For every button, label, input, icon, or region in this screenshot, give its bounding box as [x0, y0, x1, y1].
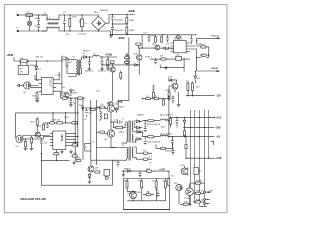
wire drive top — [83, 107, 107, 109]
svg-text:10u: 10u — [166, 44, 170, 46]
resistor R2 — [126, 15, 135, 25]
wire +300V feed — [106, 15, 136, 24]
wire -300V feed — [99, 31, 136, 35]
resistor R30 — [76, 158, 81, 162]
svg-text:1k: 1k — [186, 81, 189, 83]
svg-text:100n 1000/10: 100n 1000/10 — [147, 142, 161, 144]
wire -12v — [186, 93, 215, 96]
svg-text:R40 1k: R40 1k — [196, 199, 204, 201]
capacitor C1 — [34, 15, 40, 31]
wire q11 — [185, 166, 188, 176]
pins U3 right — [53, 80, 56, 91]
capacitor C2 — [34, 25, 40, 28]
transformer T2 secondary — [132, 147, 136, 157]
ground — [24, 148, 28, 150]
capacitor C20 — [172, 148, 175, 156]
transistor Q7 — [170, 81, 178, 89]
resistor R10 — [77, 97, 82, 99]
wire q9 — [90, 160, 92, 173]
node j55 — [142, 98, 143, 99]
ic U1 TL494 — [53, 131, 66, 150]
transistor Q14 — [110, 67, 115, 72]
svg-text:R20: R20 — [65, 117, 70, 119]
wire q10 — [127, 190, 136, 200]
resistor R59 — [50, 122, 55, 124]
box snubber — [85, 144, 91, 152]
svg-text:C15: C15 — [44, 143, 49, 145]
node j62 — [126, 64, 127, 65]
svg-text:+300B: +300B — [6, 55, 13, 57]
svg-text:C945: C945 — [136, 192, 142, 194]
resistor R29 — [136, 157, 152, 160]
node j57 — [155, 58, 156, 59]
terminal N — [17, 28, 19, 32]
node j36 — [65, 112, 66, 113]
resistor R8 — [107, 57, 114, 69]
ground — [30, 148, 34, 150]
svg-text:GND: GND — [216, 127, 221, 129]
diode D12 — [127, 170, 130, 172]
svg-text:4.7: 4.7 — [149, 163, 153, 165]
node j80 — [172, 148, 173, 149]
capacitor C19 — [171, 137, 174, 147]
node j79 — [208, 158, 209, 159]
svg-text:1N4007: 1N4007 — [30, 65, 38, 67]
capacitor CX1 — [79, 15, 88, 31]
node j40 — [82, 107, 83, 108]
wire pgood — [197, 38, 218, 44]
resistor R48 — [96, 106, 104, 108]
resistor R62 — [148, 120, 154, 122]
node j73 — [185, 136, 186, 137]
wire opto conn — [15, 134, 31, 139]
wire y48 bus — [140, 47, 174, 49]
node j19 — [46, 60, 47, 61]
svg-text:U6: U6 — [16, 146, 20, 148]
resistor R33 — [126, 179, 128, 192]
capacitor C25 — [172, 96, 175, 103]
resistor R38 — [168, 171, 170, 186]
node j26 — [162, 34, 163, 35]
svg-text:Q2: Q2 — [104, 139, 108, 141]
svg-text:1N5: 1N5 — [209, 191, 214, 193]
wire deadtime — [40, 137, 41, 154]
resistor R32 — [147, 170, 152, 172]
transistor Q13 — [133, 54, 142, 61]
resistor R52 — [161, 58, 167, 60]
transistor Q5 — [62, 92, 69, 98]
resistor R11 — [151, 35, 156, 42]
transistor Q9 — [88, 166, 99, 172]
transistor Q1 — [107, 102, 115, 112]
ground — [122, 171, 126, 177]
svg-text:1u: 1u — [44, 13, 47, 15]
svg-text:100n 1000/16: 100n 1000/16 — [147, 124, 161, 126]
svg-text:T1: T1 — [122, 118, 125, 120]
resistor R46 — [162, 99, 164, 106]
resistor R40 — [191, 182, 205, 184]
transistor Q2 — [104, 130, 115, 141]
svg-text:Др1 3300/16: Др1 3300/16 — [160, 114, 173, 116]
svg-text:T2: T2 — [143, 150, 146, 152]
resistor R7 — [66, 57, 73, 69]
svg-text:L4: L4 — [93, 54, 96, 56]
node j4 — [42, 30, 43, 31]
svg-text:N: N — [17, 28, 19, 30]
wire — [33, 14, 47, 16]
wire q2 emitter — [111, 137, 116, 147]
wire gnd out — [183, 126, 214, 128]
node j56 — [110, 121, 111, 122]
inductor L6 — [100, 108, 101, 121]
node j5 — [69, 14, 70, 15]
svg-text:FR107: FR107 — [83, 51, 90, 53]
capacitor C11 — [166, 35, 169, 42]
node j68 — [25, 138, 26, 139]
wire 5vsb rail — [87, 56, 117, 58]
pins U2 left — [171, 43, 174, 52]
wire mid to cap — [111, 121, 116, 123]
svg-text:+5V: +5V — [216, 137, 221, 139]
resistor R21 — [38, 123, 45, 130]
svg-text:R7: R7 — [69, 62, 73, 64]
diode D5 — [194, 72, 201, 84]
node j31 — [196, 57, 197, 58]
resistor R57 — [90, 108, 96, 110]
resistor R41 — [193, 192, 204, 194]
transformer T3 core — [78, 60, 79, 76]
resistor R34 — [141, 179, 143, 192]
capacitor C9 — [70, 98, 77, 104]
wire 5v channel — [142, 132, 160, 137]
terminal L — [17, 12, 19, 17]
node j54 — [172, 96, 173, 97]
wire mark — [211, 141, 214, 145]
node j37 — [65, 122, 66, 123]
wire vcc rail — [142, 34, 197, 36]
wire out bus F — [189, 110, 191, 206]
resistor R49 — [96, 131, 104, 133]
svg-text:D5: D5 — [62, 87, 66, 89]
choke L1 core — [48, 23, 59, 24]
transformer T3 secondary — [72, 57, 84, 74]
magamp row — [122, 170, 170, 172]
resistor R61 — [31, 136, 33, 149]
node j16 — [19, 60, 20, 61]
diode D3 — [70, 89, 78, 97]
resistor R39 — [194, 167, 203, 174]
capacitor C24 — [157, 191, 160, 197]
wire stage bottom — [61, 97, 86, 99]
node j60 — [139, 64, 140, 65]
svg-text:D2: D2 — [83, 53, 87, 55]
svg-text:200v/560: 200v/560 — [114, 30, 124, 32]
svg-text:R8 47k: R8 47k — [36, 57, 44, 59]
ground — [69, 105, 73, 107]
transformer T1 secondary — [132, 121, 136, 142]
resistor R28 — [136, 147, 152, 154]
diode D15 — [168, 77, 177, 83]
wire — [65, 30, 99, 32]
svg-text:Q11: Q11 — [180, 165, 185, 167]
ic U2 WT7510 — [174, 38, 187, 52]
resistor R16 — [187, 82, 189, 93]
lamp HL1 — [27, 16, 31, 31]
node j61 — [107, 64, 108, 65]
diode D1 — [35, 61, 42, 76]
wire out bus J — [207, 110, 209, 158]
node j75 — [199, 117, 200, 118]
node j53 — [168, 96, 169, 97]
capacitor C10 — [148, 35, 151, 42]
node j77 — [199, 136, 200, 137]
wire mid rail — [112, 23, 127, 25]
svg-text:+300B: +300B — [116, 101, 123, 103]
wire bus D — [90, 100, 92, 160]
transistor Q10 — [127, 192, 136, 199]
node j64 — [75, 133, 76, 134]
svg-text:+5VSB: +5VSB — [105, 54, 113, 56]
wire gnd frame left — [41, 155, 112, 185]
wire top feedback — [15, 112, 79, 114]
node j17 — [28, 60, 29, 61]
resistor R25 — [113, 122, 125, 129]
node j48 — [132, 191, 133, 192]
resistor R55 — [124, 57, 129, 59]
svg-text:LD7552: LD7552 — [50, 78, 53, 87]
choke L1 winding top — [43, 15, 65, 20]
svg-text:MUR: MUR — [72, 93, 77, 95]
svg-text:+300B: +300B — [128, 10, 135, 13]
svg-text:0.1/275v: 0.1/275v — [78, 34, 87, 36]
svg-text:Q9: Q9 — [95, 168, 99, 170]
node j47 — [145, 170, 146, 171]
resistor R20 — [65, 117, 78, 124]
svg-text:T2: T2 — [122, 145, 125, 147]
ground — [88, 69, 92, 71]
node j21 — [89, 56, 90, 57]
wire reg bottom — [123, 209, 169, 211]
wire 12v sense — [178, 92, 180, 105]
wire sb logic rail — [102, 64, 139, 66]
wire out bus I — [193, 110, 195, 203]
node j34 — [192, 95, 193, 96]
fuse F1 — [26, 11, 33, 16]
ground — [164, 66, 168, 70]
svg-text:13007: 13007 — [118, 132, 125, 134]
svg-text:1n: 1n — [84, 119, 87, 121]
optocoupler U4 — [23, 82, 31, 94]
svg-text:+3.3B: +3.3B — [215, 158, 222, 160]
svg-text:L: L — [17, 12, 19, 14]
node j76 — [190, 127, 191, 128]
svg-text:300mkГн: 300mkГн — [165, 151, 175, 153]
svg-text:PC817: PC817 — [145, 57, 152, 59]
wire psout rail — [190, 46, 209, 57]
node j38 — [41, 153, 42, 154]
node j59 — [139, 47, 140, 48]
wire q7 — [169, 86, 175, 93]
resistor R12 — [161, 35, 163, 42]
resistor R14 — [201, 44, 207, 48]
wire pins — [206, 192, 211, 203]
wire reg top — [123, 178, 169, 180]
resistor R6 — [33, 91, 39, 100]
capacitor C28 — [126, 59, 129, 61]
svg-text:1u: 1u — [92, 142, 95, 144]
resistor R5 box — [18, 61, 28, 75]
wire main rail — [115, 100, 119, 109]
capacitor C15 — [40, 140, 48, 146]
wire r65 drop — [156, 143, 173, 149]
svg-text:BD1: BD1 — [94, 12, 99, 14]
svg-text:R1: R1 — [66, 34, 70, 36]
node j45 — [172, 136, 173, 137]
ground — [60, 150, 64, 154]
svg-text:100: 100 — [96, 91, 100, 93]
resistor R56 — [124, 61, 129, 65]
node j67 — [77, 142, 78, 143]
node j71 — [64, 14, 65, 15]
optocoupler U6 — [16, 135, 24, 147]
svg-text:200v/560: 200v/560 — [114, 20, 124, 22]
resistor R47 — [152, 91, 154, 98]
box R53 — [176, 56, 182, 60]
node j2 — [42, 14, 43, 15]
wire bus C — [82, 98, 84, 160]
svg-text:SB360: SB360 — [137, 114, 144, 116]
svg-text:R6: R6 — [33, 96, 37, 98]
node j42 — [176, 117, 177, 118]
resistor R15 — [201, 54, 206, 56]
svg-text:D5: D5 — [197, 78, 201, 80]
wire mid bottom — [127, 191, 166, 200]
svg-text:R19 4k7: R19 4k7 — [52, 120, 61, 122]
svg-text:C4: C4 — [113, 161, 117, 163]
inductor L5 — [160, 135, 168, 136]
node j13 — [126, 34, 127, 35]
svg-text:2k2: 2k2 — [196, 87, 200, 89]
node j69 — [145, 120, 146, 121]
node j29 — [196, 40, 197, 41]
svg-text:D1: D1 — [38, 69, 42, 71]
node j41 — [90, 107, 91, 108]
node j58 — [183, 58, 184, 59]
resistor R54 — [136, 43, 141, 48]
pins U3 left — [39, 80, 42, 91]
transformer T1 core — [129, 121, 130, 143]
wire pson — [190, 49, 217, 71]
node j30 — [208, 55, 209, 56]
wire 5v sense — [168, 96, 170, 136]
node j7 — [81, 14, 82, 15]
transistor Q11 — [180, 165, 188, 175]
transistor Q12 — [108, 102, 119, 107]
svg-text:SB360: SB360 — [137, 132, 144, 134]
svg-text:WT7510: WT7510 — [174, 38, 183, 40]
power arrow — [125, 53, 129, 57]
wire out bus H — [204, 110, 206, 206]
transformer T1 primary — [122, 118, 128, 143]
svg-text:TL431: TL431 — [184, 198, 191, 200]
diode D7 — [135, 123, 143, 130]
transformer T3 primary — [62, 60, 77, 77]
ground — [109, 35, 113, 38]
resistor R44 — [146, 98, 151, 100]
transistor Q6 — [154, 44, 160, 50]
resistor R13 — [176, 36, 181, 41]
ground — [177, 105, 181, 107]
resistor R35 — [155, 179, 157, 192]
capacitor C32 — [144, 137, 147, 145]
node j78 — [204, 127, 205, 128]
node j70 — [145, 136, 146, 137]
ground — [106, 69, 110, 71]
resistor R50 — [72, 144, 77, 146]
node j14 — [112, 23, 113, 24]
node j24 — [70, 97, 71, 98]
misc value labels — [30, 12, 214, 204]
node j52 — [168, 136, 169, 137]
svg-text:4.7: 4.7 — [149, 157, 153, 159]
resistor R65 — [156, 147, 173, 149]
node j23 — [107, 56, 108, 57]
wire to switch stage — [135, 35, 142, 49]
diode D4 — [163, 47, 169, 50]
diode D13 — [115, 108, 117, 113]
wire left drop — [14, 113, 16, 134]
capacitor C12 — [190, 35, 193, 44]
resistor R23 — [54, 150, 59, 161]
resistor R4 — [20, 58, 28, 62]
svg-text:C3: C3 — [63, 12, 67, 14]
resistor R58 — [104, 114, 107, 119]
svg-text:39: 39 — [152, 181, 155, 183]
svg-text:100n: 100n — [161, 127, 167, 129]
wire ic to gate — [56, 72, 62, 98]
resistor R17 — [191, 82, 193, 93]
node j44 — [214, 117, 215, 118]
capacitor C29 — [144, 121, 147, 128]
ground — [72, 161, 76, 165]
capacitor C14 — [85, 108, 92, 117]
label PGood — [212, 36, 221, 40]
wire +300 rail — [14, 57, 62, 61]
svg-text:PSON: PSON — [211, 68, 218, 70]
wire drive left — [91, 148, 122, 161]
svg-text:CX: CX — [84, 23, 88, 25]
node j15 — [126, 23, 127, 24]
svg-text:TL494: TL494 — [61, 134, 64, 142]
wire 5v out — [168, 136, 215, 138]
wire zener to IC — [36, 76, 39, 80]
pot R37 — [143, 191, 154, 196]
svg-text:SB340: SB340 — [124, 169, 131, 171]
node j22 — [101, 56, 102, 57]
resistor R43 — [180, 203, 191, 205]
label PSON — [211, 68, 220, 72]
capacitor C23 — [139, 171, 142, 177]
svg-text:R22: R22 — [31, 122, 36, 124]
resistor R1 — [66, 15, 71, 36]
svg-text:+3.3B: +3.3B — [159, 169, 165, 171]
resistor R64 — [185, 137, 187, 159]
node j43 — [170, 117, 171, 118]
wire bottom bus — [41, 154, 69, 161]
resistor R66 — [120, 71, 122, 81]
node j65 — [77, 136, 78, 137]
capacitor C18 — [176, 117, 179, 127]
